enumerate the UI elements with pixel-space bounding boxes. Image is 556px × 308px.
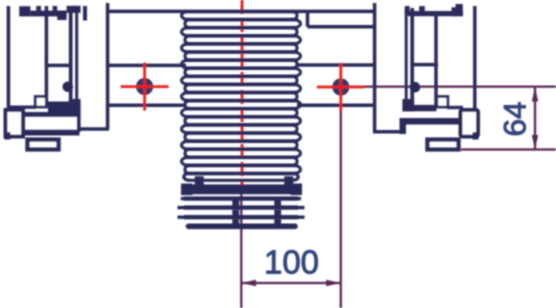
hole center dot right bbox=[332, 78, 349, 95]
pocket step left bbox=[77, 114, 81, 132]
wire to bushing mid (right) bbox=[297, 63, 374, 67]
clamp cap left bbox=[67, 6, 81, 13]
step box small right bbox=[437, 97, 448, 108]
thread nub row3 right bbox=[274, 219, 281, 224]
pocket bottom band left bbox=[22, 130, 80, 136]
bellows convolution 19 bbox=[186, 155, 297, 159]
top tab block right (stepped) bbox=[452, 7, 457, 16]
top tick up right bbox=[419, 6, 425, 12]
crosshair left (red) bbox=[121, 63, 169, 111]
arrowhead 64 bottom bbox=[532, 135, 538, 150]
collar flange band bbox=[181, 184, 302, 194]
bellows convolution 11 bbox=[186, 91, 297, 95]
top rail left bbox=[30, 11, 66, 17]
clamp plate double line V3 right bbox=[410, 8, 414, 103]
pocket top rail left bbox=[25, 112, 79, 117]
V5 bottom ledge going left bbox=[78, 127, 109, 131]
bellows convolution 6 bbox=[186, 50, 297, 54]
hanging tab vertical right bbox=[306, 11, 310, 26]
bellows convolution 17 bbox=[186, 139, 297, 143]
foot left bbox=[28, 140, 59, 150]
hole center dot left bbox=[136, 78, 153, 95]
line y107 box to lug right bbox=[447, 106, 463, 109]
extension line y87 to right edge bbox=[341, 85, 556, 87]
extension line from centerline to 100-dim bbox=[240, 194, 242, 308]
bottom thread band bbox=[189, 224, 296, 230]
vertical plate edge V5 left bbox=[106, 3, 110, 129]
bellows convolution 1 bbox=[186, 10, 297, 14]
wire to bushing top (right) bbox=[297, 10, 376, 14]
bellows convolution 2 bbox=[186, 18, 297, 22]
thread ring 3 bbox=[184, 215, 298, 219]
lug box left bbox=[6, 110, 24, 137]
lug box right bbox=[461, 110, 479, 137]
inner horizontal between V2 and V3 bbox=[45, 64, 70, 68]
bellows convolution 21 bbox=[186, 172, 297, 176]
bolt hole dot right clamp bbox=[410, 82, 421, 93]
crosshair right (red) bbox=[317, 63, 365, 111]
arrowhead 100 right bbox=[326, 280, 341, 286]
inner horizontal between clamp and V2 right bbox=[413, 63, 438, 67]
ring 1 stub right bbox=[298, 197, 301, 200]
right outer edge V1 bbox=[473, 6, 477, 111]
svg-text:100: 100 bbox=[264, 243, 319, 280]
clamp cap right bbox=[405, 6, 410, 15]
clamp foot junction right bbox=[402, 99, 414, 112]
bellows convolution 14 bbox=[186, 115, 297, 119]
centerline (red dash) vertical axis bbox=[241, 0, 244, 191]
bellows convolution 3 bbox=[186, 26, 297, 30]
thread ring 2 bbox=[184, 205, 298, 209]
bellows convolution 10 bbox=[186, 83, 297, 87]
top block 2 left bbox=[57, 11, 66, 20]
bolt hole dot left clamp bbox=[63, 82, 74, 93]
bellows convolution 20 bbox=[186, 164, 297, 168]
top tick 1 left bbox=[36, 6, 41, 11]
main band right bbox=[403, 118, 462, 125]
line y107 V1-stepbox left bbox=[10, 105, 36, 108]
extension line from right hole center to 100-dim bbox=[340, 110, 342, 308]
step box small left bbox=[35, 97, 46, 108]
hanging tab lower line right bbox=[308, 25, 375, 29]
V5 bottom ledge going right bbox=[373, 130, 403, 134]
inner vertical V2 left bbox=[45, 6, 49, 107]
dimension line 100 bbox=[241, 282, 340, 284]
wire to bushing lower (right) bbox=[297, 103, 376, 107]
arrowhead 64 top bbox=[532, 87, 538, 102]
collar end cap left bbox=[181, 184, 193, 196]
bellows convolution 4 bbox=[186, 34, 297, 38]
top tick 2 left bbox=[53, 6, 58, 11]
bellows convolution 5 bbox=[186, 42, 297, 46]
transition nub left bbox=[197, 178, 203, 185]
thread nub row2 right bbox=[274, 210, 281, 216]
collar flange under coils bbox=[178, 184, 305, 227]
top tab block left bbox=[19, 6, 30, 16]
bellows convolution 12 bbox=[186, 99, 297, 103]
top rail right bbox=[408, 11, 463, 16]
dimension graphics (dark purple) bbox=[241, 87, 556, 308]
wire to bushing lower (left) bbox=[107, 103, 186, 107]
vertical plate edge V5 right bbox=[373, 3, 377, 131]
bellows convolution 7 bbox=[186, 58, 297, 62]
wire to bushing mid (left) bbox=[109, 64, 186, 68]
lug cap dip left bbox=[5, 132, 11, 140]
wire to bushing top (left) bbox=[107, 10, 186, 14]
bellows convolution 16 bbox=[186, 131, 297, 135]
thread nub row1 right bbox=[274, 201, 281, 207]
collar end cap right bbox=[291, 184, 303, 196]
transition nub right bbox=[286, 178, 292, 185]
inner vertical V2 right bbox=[434, 13, 438, 107]
dimension line 64 bbox=[534, 87, 536, 150]
clamp foot junction left bbox=[69, 99, 81, 115]
lower block between V2 and clamp left bbox=[48, 102, 73, 113]
lower block between clamp and V2 right bbox=[406, 105, 437, 111]
ring 2 stub left bbox=[178, 206, 186, 209]
thread nub row2 left bbox=[232, 210, 239, 216]
ring 3 stub left bbox=[178, 215, 186, 218]
clamp plate double line V4 right bbox=[405, 8, 408, 103]
extension line y149 bottom right bbox=[461, 148, 556, 150]
bellows bottom closing curve bbox=[184, 174, 298, 181]
foot right bbox=[428, 140, 459, 150]
left outer edge V1 bbox=[7, 6, 11, 111]
top stub left bbox=[83, 6, 87, 21]
ring 2 stub right bbox=[297, 206, 305, 209]
arrowhead 100 left bbox=[241, 280, 256, 286]
bellows convolution 13 bbox=[186, 107, 297, 111]
ring 3 stub right bbox=[297, 215, 305, 218]
lug cap dip right bbox=[473, 132, 479, 140]
thread nub row1 left bbox=[232, 201, 239, 207]
bellows convolution 8 bbox=[186, 66, 297, 70]
ring 1 stub left bbox=[181, 197, 184, 200]
band step right bbox=[400, 118, 407, 134]
clamp plate double line V3 bbox=[69, 8, 73, 103]
bellows convolution 15 bbox=[186, 123, 297, 127]
clamp plate double line V4 bbox=[75, 8, 78, 103]
thread ring 1 bbox=[184, 196, 298, 200]
svg-text:64: 64 bbox=[497, 101, 533, 136]
bellows convolution 18 bbox=[186, 147, 297, 151]
bellows convolution 9 bbox=[186, 74, 297, 78]
thread nub row3 left bbox=[232, 219, 239, 224]
